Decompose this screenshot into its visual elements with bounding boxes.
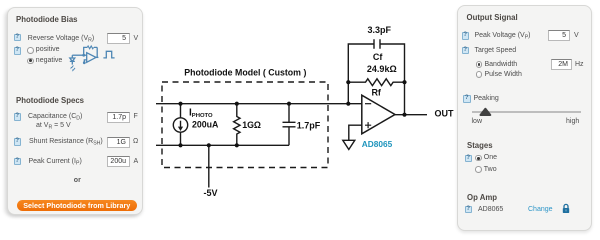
- wire inverting node to Cf: [348, 44, 374, 104]
- op-amp plus pin: [365, 122, 371, 128]
- photodiode model dashed box: [162, 82, 328, 168]
- wire Cf to output branch: [380, 44, 405, 115]
- resistor Rf 24.9k: [348, 79, 404, 86]
- capacitor C_D 1.7pF: [283, 104, 296, 146]
- svg-text:OUT: OUT: [435, 108, 455, 118]
- svg-text:-5V: -5V: [203, 188, 217, 198]
- node Rf right: [402, 80, 406, 84]
- resistor R_SH 1G ohm: [234, 104, 240, 146]
- wire -5V stub: [208, 145, 210, 187]
- op-amp U1 triangle: [362, 95, 395, 134]
- wire top rail: [156, 103, 362, 105]
- current source I_PHOTO circle: [173, 118, 187, 132]
- wire bottom rail: [156, 144, 289, 146]
- svg-text:AD8065: AD8065: [362, 139, 393, 149]
- svg-text:Rf: Rf: [371, 88, 381, 98]
- node top rail / resistor: [235, 102, 239, 106]
- node bottom rail / -5V: [207, 143, 211, 147]
- current source arrow: [180, 121, 182, 128]
- svg-text:200uA: 200uA: [192, 119, 219, 129]
- ground: [343, 140, 355, 149]
- wire non-inverting input: [349, 125, 362, 140]
- svg-text:Photodiode Model ( Custom ): Photodiode Model ( Custom ): [184, 67, 306, 77]
- svg-text:Cf: Cf: [373, 52, 383, 62]
- capacitor Cf plates: [374, 39, 380, 48]
- svg-text:1GΩ: 1GΩ: [242, 120, 261, 130]
- svg-text:IPHOTO: IPHOTO: [189, 108, 213, 119]
- svg-text:1.7pF: 1.7pF: [297, 121, 321, 131]
- node bottom rail / current source: [178, 143, 182, 147]
- slider: [472, 111, 581, 113]
- wire output: [395, 114, 427, 116]
- svg-text:24.9kΩ: 24.9kΩ: [367, 64, 397, 74]
- small blue photodiode-amp icon: [68, 44, 118, 76]
- node Rf left: [346, 80, 350, 84]
- node top rail / capacitor: [287, 102, 291, 106]
- lock icon: [561, 203, 571, 214]
- node inverting input: [346, 102, 350, 106]
- current source I_PHOTO branch wires: [180, 104, 182, 146]
- svg-text:3.3pF: 3.3pF: [367, 25, 391, 35]
- node output: [402, 113, 406, 117]
- node top rail / current source: [178, 102, 182, 106]
- current source arrowhead: [178, 127, 183, 131]
- op-amp minus pin: [365, 103, 371, 105]
- node bottom rail / resistor: [235, 143, 239, 147]
